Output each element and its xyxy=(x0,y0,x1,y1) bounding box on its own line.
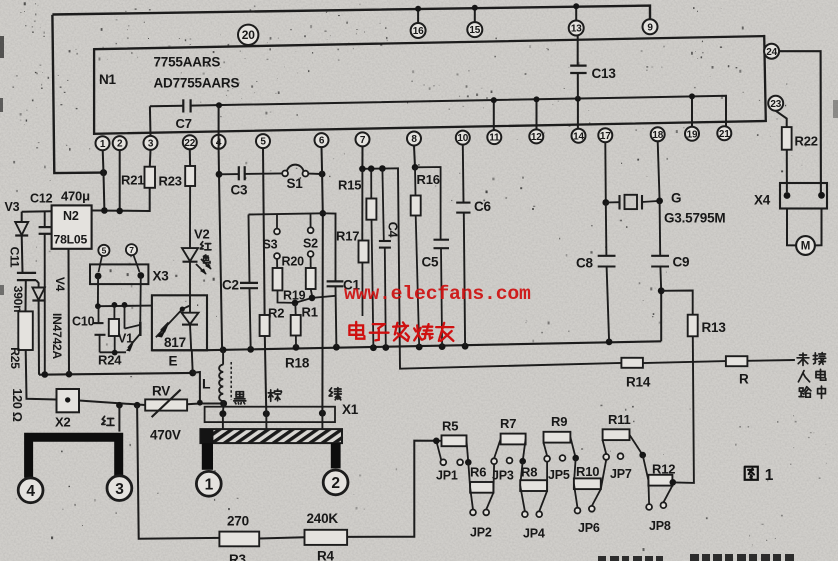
wire C1 jog from pin6 node xyxy=(323,213,336,281)
wire pin24 to X4 right terminal xyxy=(779,51,821,192)
svg-text:JP3: JP3 xyxy=(492,469,514,483)
pin 6 of N1 xyxy=(315,133,329,147)
wire pin8 node xyxy=(414,146,415,168)
V2 emission arrows xyxy=(196,264,206,274)
svg-text:8: 8 xyxy=(411,134,417,145)
resistor R11 xyxy=(603,429,630,440)
pin 17 of N1 xyxy=(598,128,612,142)
wire pin7 node row xyxy=(361,146,363,168)
svg-text:JP6: JP6 xyxy=(578,521,600,535)
jumper JP8 xyxy=(647,480,650,504)
svg-text:www.elecfans.com: www.elecfans.com xyxy=(344,283,531,305)
terminal 3 xyxy=(107,476,132,501)
wire N2 ground pin down xyxy=(68,249,71,374)
svg-text:C13: C13 xyxy=(592,66,617,81)
svg-text:X4: X4 xyxy=(754,193,771,208)
resistor R15 xyxy=(370,169,372,199)
capacitor C13 xyxy=(577,36,579,66)
connector X2 xyxy=(57,389,80,412)
svg-text:3: 3 xyxy=(148,139,154,150)
svg-text:JP7: JP7 xyxy=(610,467,632,481)
svg-text:78L05: 78L05 xyxy=(54,233,88,247)
wire pin23 to R22 xyxy=(776,111,787,127)
wire outer supply loop left side xyxy=(52,15,103,173)
svg-text:11: 11 xyxy=(489,133,500,144)
capacitor C6 xyxy=(462,145,465,203)
svg-text:JP5: JP5 xyxy=(548,468,570,482)
resistor R2 xyxy=(260,315,270,336)
svg-text:6: 6 xyxy=(319,136,325,147)
svg-text:C6: C6 xyxy=(474,199,492,214)
svg-text:7: 7 xyxy=(360,135,366,146)
wire node row into opto xyxy=(98,305,152,308)
resistor R14 xyxy=(621,358,643,368)
svg-text:N2: N2 xyxy=(63,209,79,223)
wire X4 to motor M xyxy=(787,209,796,246)
wire RV to L bottom junction xyxy=(187,403,200,406)
svg-text:R14: R14 xyxy=(626,375,651,390)
wire C11 to R25 xyxy=(25,280,27,311)
pin 15 of N1 xyxy=(467,22,482,37)
pin 12 of N1 xyxy=(529,129,543,143)
svg-text:23: 23 xyxy=(770,99,781,110)
pin 8 of N1 xyxy=(407,132,421,146)
pin 22 of N1 xyxy=(183,135,197,149)
wire riser pin14 xyxy=(577,99,579,129)
pin 19 of N1 xyxy=(685,127,699,141)
wire riser pin16 to bus xyxy=(417,9,419,24)
svg-text:S2: S2 xyxy=(303,237,318,251)
svg-text:817: 817 xyxy=(164,335,186,350)
svg-text:1: 1 xyxy=(100,139,106,150)
svg-text:15: 15 xyxy=(469,25,480,36)
wire main shunt bus (R18 line) xyxy=(152,341,661,350)
svg-text:120 Ω: 120 Ω xyxy=(10,388,24,422)
capacitor C9 xyxy=(659,201,662,256)
svg-text:R22: R22 xyxy=(795,134,818,149)
wire riser pin11 xyxy=(493,100,495,130)
svg-text:R13: R13 xyxy=(702,320,727,335)
resistor R12 xyxy=(643,455,649,480)
svg-text:22: 22 xyxy=(184,138,195,149)
wire R13 down to jumper chain xyxy=(674,336,694,483)
svg-text:10: 10 xyxy=(457,133,468,144)
capacitor C11 390n xyxy=(17,273,36,280)
figure label tu 1 xyxy=(745,467,758,480)
wire ground jog to RV node xyxy=(193,372,224,404)
optocoupler 817 box xyxy=(152,295,207,350)
wires X1 into terminal bar xyxy=(222,414,224,430)
wire pin5 column xyxy=(263,148,265,315)
svg-text:C2: C2 xyxy=(222,278,239,293)
svg-text:C12: C12 xyxy=(30,192,53,206)
svg-text:G: G xyxy=(671,191,681,206)
svg-text:20: 20 xyxy=(242,28,255,42)
svg-text:R: R xyxy=(739,372,749,387)
jumper JP3 xyxy=(494,439,501,458)
pin 7 of X3 xyxy=(126,244,137,255)
svg-text:12: 12 xyxy=(531,132,542,143)
svg-text:470V: 470V xyxy=(150,428,181,443)
svg-text:470μ: 470μ xyxy=(61,189,90,204)
wire pin7 spur down to unconnected line xyxy=(398,169,621,369)
pin 4 of N1 xyxy=(212,135,226,149)
opto transistor diagonal with arrows xyxy=(156,306,190,338)
svg-text:X1: X1 xyxy=(342,402,359,417)
svg-text:IN4742A: IN4742A xyxy=(50,313,64,359)
svg-text:R20: R20 xyxy=(282,255,305,269)
svg-text:5: 5 xyxy=(102,246,107,256)
svg-text:R16: R16 xyxy=(417,172,440,187)
switch S3 xyxy=(276,214,278,229)
switch S2 xyxy=(310,213,312,227)
wire X2 to RV junction xyxy=(79,401,145,406)
pin 5 of N1 xyxy=(256,134,270,148)
label zong (brown) xyxy=(268,389,281,401)
wire R3 to R4 xyxy=(259,537,304,538)
wire riser pin19 xyxy=(691,96,693,126)
svg-text:1: 1 xyxy=(765,467,774,484)
resistor R9 xyxy=(544,432,571,443)
svg-text:V4: V4 xyxy=(53,277,67,292)
zener diode V4 IN4742A xyxy=(36,280,39,287)
capacitor C12 xyxy=(44,212,46,228)
pin 5 of X3 xyxy=(98,245,109,256)
pin 11 of N1 xyxy=(487,130,501,144)
svg-text:R7: R7 xyxy=(500,416,516,431)
svg-text:N1: N1 xyxy=(99,72,117,87)
svg-text:24: 24 xyxy=(766,47,777,58)
resistor R4 240K xyxy=(305,530,348,545)
svg-text:270: 270 xyxy=(227,514,249,529)
svg-text:R17: R17 xyxy=(336,229,359,244)
resistor R19 under S2 xyxy=(310,257,312,268)
capacitor C8 xyxy=(605,203,608,256)
capacitor C4 xyxy=(382,169,383,242)
wire into X1 black terminal xyxy=(222,404,225,414)
svg-text:C10: C10 xyxy=(72,315,95,329)
svg-text:4: 4 xyxy=(26,483,35,500)
wire R24 bottom row xyxy=(100,351,126,353)
svg-text:JP8: JP8 xyxy=(649,519,671,533)
svg-text:RV: RV xyxy=(152,384,170,399)
svg-text:JP1: JP1 xyxy=(436,469,458,483)
terminal 4 xyxy=(18,478,43,503)
svg-text:V3: V3 xyxy=(5,200,20,214)
svg-text:C9: C9 xyxy=(673,255,690,270)
pin 21 of N1 xyxy=(717,126,731,140)
svg-text:21: 21 xyxy=(719,129,730,140)
watermark dianzifashaoyou xyxy=(349,322,364,339)
resistor R13 xyxy=(688,315,698,337)
wire RV node down to R3 xyxy=(137,405,219,539)
regulator N2 78L05 xyxy=(52,205,92,248)
svg-text:R6: R6 xyxy=(470,465,486,480)
svg-text:390n: 390n xyxy=(11,286,25,313)
svg-text:X2: X2 xyxy=(55,415,71,430)
varistor RV 470V xyxy=(145,399,187,410)
wire S2/S3 net xyxy=(249,213,323,214)
terminal 1 xyxy=(196,471,221,496)
svg-text:R3: R3 xyxy=(229,552,247,561)
transistor V1 xyxy=(124,305,126,329)
label hei (black) xyxy=(234,392,246,404)
capacitor C1 xyxy=(327,281,344,286)
pin 13 of N1 xyxy=(569,21,584,36)
svg-text:19: 19 xyxy=(687,129,698,140)
svg-text:G3.5795M: G3.5795M xyxy=(664,211,725,226)
jumper JP7 xyxy=(603,440,607,454)
crystal G 3.5795M xyxy=(606,201,620,203)
svg-text:R10: R10 xyxy=(576,464,599,479)
resistor R8 xyxy=(520,461,523,485)
wire top supply bus to pins 16 15 13 9 xyxy=(52,6,650,20)
op-amp U1 / metering IC N1 AD7755 body xyxy=(94,36,766,134)
svg-text:R24: R24 xyxy=(98,353,122,368)
connector X4 xyxy=(780,183,827,209)
pin 10 of N1 xyxy=(456,131,470,145)
pin 1 of N1 xyxy=(96,136,110,150)
LED V2 xyxy=(182,248,198,261)
svg-text:17: 17 xyxy=(600,131,611,142)
svg-text:7: 7 xyxy=(129,245,134,255)
svg-text:R18: R18 xyxy=(285,356,310,371)
pin 23 of N1 xyxy=(768,96,783,111)
resistor R6 xyxy=(468,462,470,487)
wire pin2 down to rail xyxy=(119,150,121,211)
svg-text:R25: R25 xyxy=(8,347,22,369)
pin 20 of N1 xyxy=(238,25,258,45)
label lv (green) xyxy=(329,388,341,400)
connector X1 xyxy=(205,407,335,422)
inductor L (current coil) xyxy=(222,350,224,365)
pin 2 of N1 xyxy=(113,136,127,150)
svg-text:JP4: JP4 xyxy=(523,527,545,541)
resistor R10 xyxy=(574,458,576,484)
label hong (red wire) xyxy=(102,416,114,425)
node note: not connected in circuit xyxy=(797,353,809,365)
wire pin1 column down to N2 output xyxy=(92,150,105,210)
wire pin17 column xyxy=(604,142,607,202)
svg-text:R23: R23 xyxy=(159,174,182,189)
svg-text:R21: R21 xyxy=(121,173,144,188)
wire X3 pin5 down to node row xyxy=(97,276,99,306)
wire riser pin12 xyxy=(536,99,538,129)
wire V3 line into N2 input xyxy=(22,210,52,213)
svg-text:C11: C11 xyxy=(8,247,22,268)
svg-text:240K: 240K xyxy=(307,511,339,526)
svg-text:C5: C5 xyxy=(422,255,440,270)
wire +5V rail to R21 bottom xyxy=(104,188,149,211)
thick phase wire to terminals 4 and 3 xyxy=(29,437,119,478)
wire R4 up to jumper chain entry xyxy=(347,441,436,537)
svg-text:C7: C7 xyxy=(176,116,192,131)
svg-text:2: 2 xyxy=(331,475,339,492)
svg-text:9: 9 xyxy=(647,22,653,33)
wire pin3 to R21 xyxy=(149,150,152,167)
svg-text:R9: R9 xyxy=(551,414,567,429)
resistor R20 under S3 xyxy=(276,259,278,268)
resistor R5 xyxy=(442,435,467,446)
wire R22 to X4 left terminal xyxy=(786,150,788,193)
svg-text:3: 3 xyxy=(115,481,124,498)
svg-text:13: 13 xyxy=(571,24,582,35)
svg-text:R11: R11 xyxy=(608,412,631,427)
wire pin18 column xyxy=(658,141,660,201)
pin 3 of N1 xyxy=(144,136,158,150)
wire pin4 column down to shunt bus xyxy=(219,105,223,350)
wire E emitter down to ground xyxy=(191,350,194,373)
capacitor C7 xyxy=(183,99,190,112)
capacitor C5 xyxy=(415,167,441,240)
pin 7 of N1 xyxy=(356,132,370,146)
wire pin6 column down to X1 green xyxy=(322,147,323,413)
svg-text:R15: R15 xyxy=(338,178,361,193)
wire attenuator node xyxy=(295,296,336,303)
label hongse vertical xyxy=(200,242,211,250)
svg-text:2: 2 xyxy=(117,139,123,150)
svg-text:V1: V1 xyxy=(118,332,133,346)
svg-text:AD7755AARS: AD7755AARS xyxy=(154,76,240,91)
resistor R23 xyxy=(185,166,195,186)
wire pin3 up to C7 line xyxy=(149,106,152,136)
resistor R3 270 xyxy=(219,532,259,547)
jumper JP4 xyxy=(520,486,525,512)
jumper JP6 xyxy=(574,484,578,508)
svg-text:7755AARS: 7755AARS xyxy=(154,55,221,70)
wire ground line under supply xyxy=(39,373,193,375)
pin 14 of N1 xyxy=(572,129,586,143)
svg-text:R5: R5 xyxy=(442,419,458,434)
svg-text:C4: C4 xyxy=(386,222,400,238)
svg-text:1: 1 xyxy=(205,477,214,494)
svg-text:R4: R4 xyxy=(317,549,335,561)
terminal 2 xyxy=(323,470,348,495)
capacitor C10 xyxy=(98,306,100,323)
wire R14 to R xyxy=(643,361,726,363)
switch S1 xyxy=(282,171,288,177)
junction pin4 top node xyxy=(216,102,222,108)
svg-text:14: 14 xyxy=(573,131,584,142)
svg-text:16: 16 xyxy=(413,26,424,37)
resistor R17 on pin7 column xyxy=(361,169,363,241)
wire C3 to S1 xyxy=(245,172,283,175)
svg-text:V2: V2 xyxy=(194,227,210,242)
resistor R24 xyxy=(113,305,115,319)
wire R to note xyxy=(747,359,795,362)
svg-text:X3: X3 xyxy=(153,269,170,284)
svg-text:R8: R8 xyxy=(521,465,537,480)
wire riser pin13 to bus xyxy=(575,6,577,21)
pin 18 of N1 xyxy=(651,127,665,141)
svg-text:5: 5 xyxy=(260,137,266,148)
meter terminal bar (hatched) xyxy=(200,429,342,443)
resistor R21 xyxy=(145,167,156,188)
svg-text:C3: C3 xyxy=(231,183,249,198)
svg-text:18: 18 xyxy=(652,130,663,141)
svg-text:C8: C8 xyxy=(576,256,594,271)
svg-text:R12: R12 xyxy=(652,462,675,477)
jumper JP1 xyxy=(436,440,441,442)
svg-text:R1: R1 xyxy=(302,305,318,320)
motor M xyxy=(796,236,815,255)
wire pin22 to R23 xyxy=(189,149,191,166)
wire C9 node to bus and R13 xyxy=(660,291,662,342)
wire R23 to V2 xyxy=(189,186,191,248)
svg-text:M: M xyxy=(801,241,810,253)
capacitor C3 xyxy=(219,173,239,175)
wire R25 down to X2 xyxy=(26,350,57,400)
resistor R22 xyxy=(782,127,792,150)
svg-text:L: L xyxy=(202,376,211,392)
resistor R1 xyxy=(294,303,296,315)
pin 24 of N1 xyxy=(764,44,779,59)
svg-text:R2: R2 xyxy=(268,306,284,321)
terminal bar legs xyxy=(202,443,213,470)
svg-text:S1: S1 xyxy=(287,176,304,191)
pin 9 of N1 xyxy=(643,19,658,34)
capacitor C2 xyxy=(249,215,250,283)
resistor R16 xyxy=(414,167,417,195)
pin 16 of N1 xyxy=(411,23,426,38)
wire long internal bus from C7 to pin 21 xyxy=(150,105,183,108)
svg-text:E: E xyxy=(169,354,178,369)
svg-text:JP2: JP2 xyxy=(470,526,492,540)
resistor R7 xyxy=(501,434,526,445)
wire riser pin15 to bus xyxy=(474,8,476,22)
wire S1 to pin6 column xyxy=(308,173,322,175)
jumper JP2 xyxy=(470,487,473,509)
resistor R25 xyxy=(18,311,33,350)
jumper JP5 xyxy=(544,443,548,456)
connector X3 xyxy=(90,264,148,284)
node +5V junction at pin1 column xyxy=(100,169,107,176)
resistor R xyxy=(726,356,748,366)
opto LED triangle xyxy=(182,313,199,325)
